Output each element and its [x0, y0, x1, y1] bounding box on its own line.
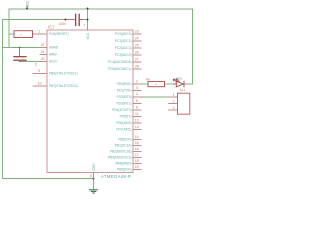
svg-text:14: 14 [135, 135, 139, 139]
svg-text:LED: LED [176, 76, 183, 80]
svg-text:15: 15 [135, 141, 139, 145]
svg-text:2: 2 [136, 80, 138, 84]
svg-text:1: 1 [38, 30, 40, 34]
svg-text:28: 28 [135, 65, 139, 69]
svg-text:C: C [35, 63, 38, 67]
svg-text:16: 16 [135, 147, 139, 151]
svg-text:1: 1 [173, 93, 175, 97]
svg-text:9: 9 [38, 69, 40, 73]
svg-text:100n: 100n [59, 22, 67, 26]
svg-text:AGND: AGND [49, 46, 59, 50]
svg-text:3: 3 [136, 86, 138, 90]
svg-text:17: 17 [135, 153, 139, 157]
svg-text:SL1: SL1 [180, 88, 186, 92]
svg-text:PC2(ADC2): PC2(ADC2) [115, 46, 132, 50]
svg-text:5: 5 [136, 99, 138, 103]
svg-text:PC0(ADC0): PC0(ADC0) [115, 32, 132, 36]
svg-text:R8: R8 [146, 78, 150, 82]
svg-text:2: 2 [173, 99, 175, 103]
svg-text:PC6(/RESET): PC6(/RESET) [49, 32, 69, 36]
svg-text:VCC: VCC [25, 0, 29, 7]
svg-text:22: 22 [41, 43, 45, 47]
svg-text:PC4(ADC4/SDA): PC4(ADC4/SDA) [108, 60, 132, 64]
svg-text:PB2(SS/OC1B): PB2(SS/OC1B) [110, 150, 132, 154]
svg-text:PD5(T1): PD5(T1) [120, 115, 132, 119]
svg-text:+: + [20, 33, 22, 37]
svg-text:6: 6 [136, 106, 138, 110]
svg-text:26: 26 [135, 51, 139, 55]
svg-text:12: 12 [135, 119, 139, 123]
svg-text:19: 19 [135, 165, 139, 169]
svg-text:PB4(MISO): PB4(MISO) [115, 162, 131, 166]
svg-text:11: 11 [135, 112, 139, 116]
svg-text:PD4(XCK/T0): PD4(XCK/T0) [112, 108, 131, 112]
svg-text:PB1(OC1A): PB1(OC1A) [115, 144, 132, 148]
svg-text:13: 13 [135, 125, 139, 129]
svg-text:GND: GND [92, 163, 96, 171]
svg-text:PD6(AIN0): PD6(AIN0) [116, 121, 131, 125]
svg-text:PD1(TXD): PD1(TXD) [117, 89, 131, 93]
svg-text:20: 20 [41, 57, 45, 61]
svg-text:+: + [155, 82, 157, 86]
svg-text:ATMEGA48-P: ATMEGA48-P [101, 174, 131, 179]
svg-text:PD2(INT0): PD2(INT0) [116, 95, 131, 99]
svg-text:PB0(ICP): PB0(ICP) [118, 138, 131, 142]
svg-text:7: 7 [84, 23, 86, 27]
svg-text:8: 8 [90, 174, 92, 178]
svg-text:PD3(INT1): PD3(INT1) [116, 102, 131, 106]
svg-text:PC3(ADC3): PC3(ADC3) [115, 53, 132, 57]
svg-text:PB7(XTAL2/TOSC2): PB7(XTAL2/TOSC2) [49, 84, 78, 88]
svg-text:PB6(XTAL1/TOSC1): PB6(XTAL1/TOSC1) [49, 72, 78, 76]
svg-text:3: 3 [173, 106, 175, 110]
svg-text:24: 24 [135, 37, 139, 41]
svg-text:4: 4 [136, 93, 138, 97]
svg-text:PB5(SCK): PB5(SCK) [117, 168, 132, 172]
svg-text:25: 25 [135, 44, 139, 48]
svg-text:AREF: AREF [49, 53, 57, 57]
svg-text:PD7(AIN1): PD7(AIN1) [116, 128, 131, 132]
svg-text:IC7: IC7 [48, 25, 55, 30]
svg-text:VCC: VCC [86, 32, 90, 39]
svg-text:PB3(MOSI/OC2): PB3(MOSI/OC2) [108, 156, 131, 160]
svg-text:PC1(ADC1): PC1(ADC1) [115, 39, 132, 43]
svg-text:PD0(RXD): PD0(RXD) [117, 82, 132, 86]
svg-text:AVCC: AVCC [49, 60, 58, 64]
svg-text:27: 27 [135, 58, 139, 62]
svg-text:10: 10 [38, 82, 42, 86]
svg-text:18: 18 [135, 159, 139, 163]
svg-text:21: 21 [41, 50, 45, 54]
svg-text:23: 23 [135, 30, 139, 34]
svg-text:PC5(ADC5/SCL): PC5(ADC5/SCL) [108, 67, 132, 71]
